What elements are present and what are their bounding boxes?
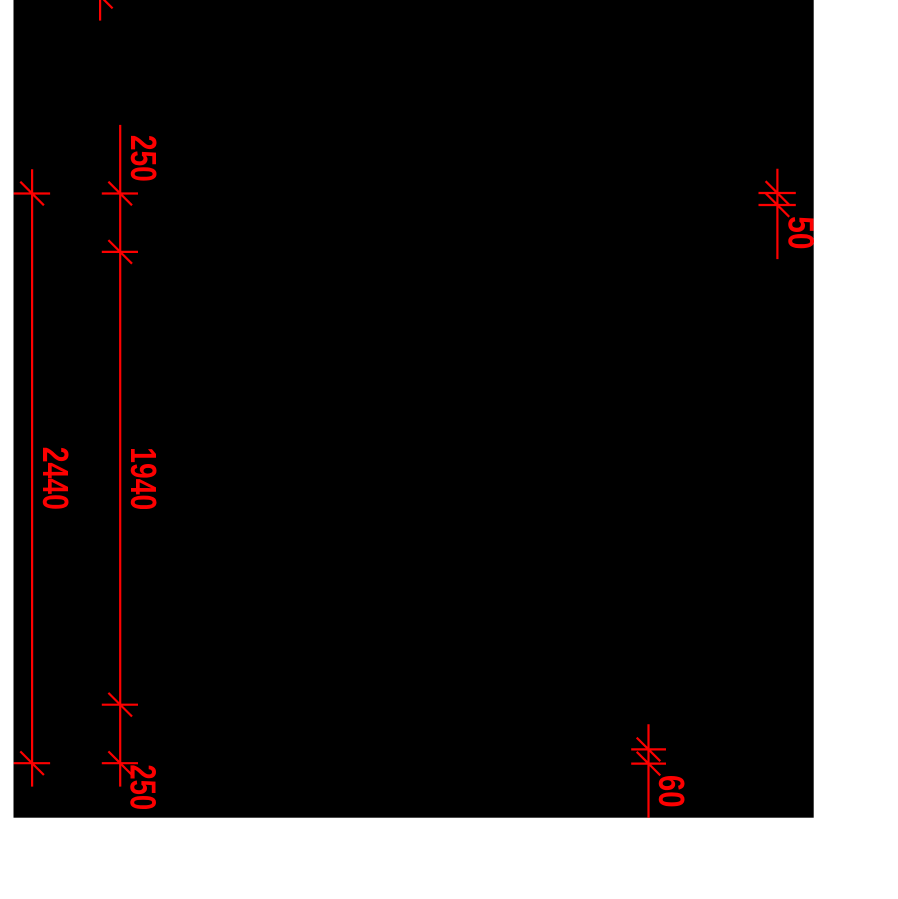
extension line at y=193.0 (50 dim) <box>759 192 796 194</box>
svg-text:2440: 2440 <box>35 447 76 510</box>
dim text 60 <box>651 775 692 808</box>
oblique tick at y=763.6 (60 dim) <box>637 752 661 776</box>
oblique tick at y=193.0 (50 dim) <box>766 181 790 205</box>
svg-text:1940: 1940 <box>123 447 164 510</box>
dimension line 2440 (left vertical) <box>31 169 33 786</box>
dimension line 60 (bottom right) <box>647 724 649 817</box>
oblique tick at y=749.4 (60 dim) <box>637 738 661 762</box>
extension line at y=763.6 (60 dim) <box>631 762 666 764</box>
oblique tick top of 2440 <box>20 182 44 206</box>
dim text 1940 <box>123 447 164 510</box>
extension line top of 2440 <box>14 192 50 194</box>
partial dimension line top-left <box>99 0 101 21</box>
extension line at y=763.2 <box>102 762 138 764</box>
svg-text:60: 60 <box>651 775 692 808</box>
dimension line 50 (top right) <box>776 169 778 259</box>
extension line at y=749.4 (60 dim) <box>631 748 666 750</box>
extension line at y=205.0 (50 dim) <box>759 204 796 206</box>
dim text 2440 <box>35 447 76 510</box>
svg-text:250: 250 <box>123 764 164 810</box>
oblique tick at y=205.0 (50 dim) <box>766 193 790 217</box>
extension line at y=704.7 <box>102 704 138 706</box>
oblique tick at y=763.2 <box>108 751 132 775</box>
dim text 50 <box>780 216 821 249</box>
extension line bottom of 2440 <box>14 762 50 764</box>
extension line at y=193.5 <box>102 192 138 194</box>
svg-text:50: 50 <box>780 216 821 249</box>
partial oblique tick top-left <box>89 0 113 8</box>
oblique tick at y=704.7 <box>108 693 132 717</box>
dim text 250 (top) <box>123 135 164 182</box>
svg-text:250: 250 <box>123 135 164 182</box>
oblique tick bottom of 2440 <box>20 751 44 775</box>
oblique tick at y=193.5 <box>108 182 132 206</box>
extension line at y=251.9 <box>102 251 138 253</box>
dim text 250 (bottom) <box>123 764 164 810</box>
oblique tick at y=251.9 <box>108 240 132 264</box>
dimension line chain 250/1940/250 (middle vertical) <box>119 125 121 787</box>
